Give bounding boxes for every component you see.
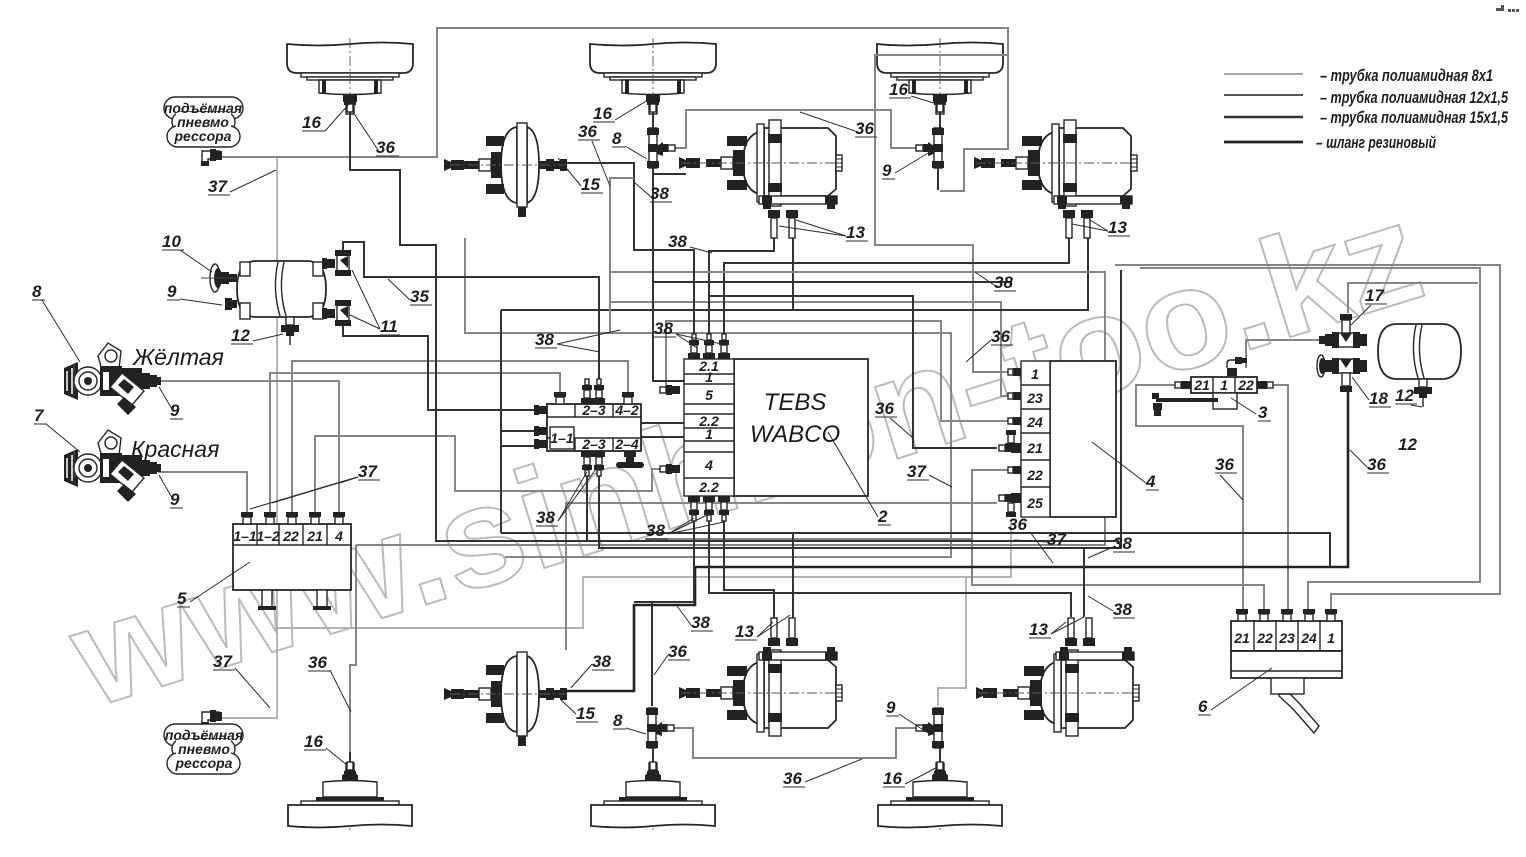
svg-text:36: 36 — [991, 327, 1010, 346]
svg-text:11: 11 — [380, 317, 398, 336]
drain fitting 12 — [281, 317, 299, 345]
wire mid chamber 13b long hose — [792, 533, 794, 621]
svg-text:8: 8 — [612, 129, 622, 148]
TEBS port strip — [684, 358, 734, 496]
wheel bottom-right — [878, 761, 1002, 833]
svg-text:Жёлтая: Жёлтая — [132, 344, 224, 370]
svg-text:4: 4 — [704, 457, 713, 473]
wheel bottom-left — [288, 761, 412, 833]
svg-text:16: 16 — [302, 113, 321, 132]
wire bottom-left bellows riser — [350, 545, 356, 763]
svg-text:13: 13 — [1108, 218, 1127, 237]
wire gray stub — [645, 538, 972, 540]
fitting 16 bottom-right wheel — [933, 762, 947, 780]
wire tee8 junction to cross link — [653, 173, 686, 175]
svg-text:1–1: 1–1 — [233, 528, 257, 544]
wire right chamber stud a to TEBS — [724, 236, 1069, 344]
wire chamber 15 gray branch — [610, 178, 634, 333]
svg-text:25: 25 — [1026, 495, 1043, 511]
svg-text:38: 38 — [994, 273, 1013, 292]
svg-text:13: 13 — [735, 622, 754, 641]
svg-text:9: 9 — [886, 698, 896, 717]
svg-text:38: 38 — [592, 652, 611, 671]
fitting 16 top-right wheel — [933, 94, 947, 112]
svg-text:17: 17 — [1365, 286, 1385, 305]
elbow 11 lower — [322, 300, 351, 326]
fitting 16 top-left wheel — [343, 94, 357, 112]
svg-text:9: 9 — [882, 161, 892, 180]
svg-text:12: 12 — [1395, 386, 1414, 405]
spring brake chamber bottom-right — [976, 618, 1140, 736]
wire top-mid chamber stud a — [709, 236, 774, 344]
wire TEBS stud to block4 21 — [709, 296, 997, 448]
svg-text:37: 37 — [213, 652, 233, 671]
svg-text:37: 37 — [907, 462, 927, 481]
centre manifold bottom studs — [581, 451, 593, 476]
svg-text:4: 4 — [1145, 472, 1156, 491]
wire TEBS 2.1 to manifold port — [501, 430, 536, 432]
tee 8 bottom — [646, 708, 674, 748]
wire valve3 right to test 23 — [1265, 385, 1288, 613]
wire valve3 to tee 17 — [1246, 340, 1332, 368]
spring brake chamber top-middle — [679, 120, 843, 238]
wire top-mid chamber stud b — [792, 236, 794, 310]
svg-text:8: 8 — [613, 711, 623, 730]
svg-text:38: 38 — [535, 330, 554, 349]
wheel top-middle — [590, 38, 716, 119]
valve3 top elbow — [1227, 357, 1247, 376]
svg-text:36: 36 — [1215, 455, 1234, 474]
tee 18 — [1317, 355, 1367, 392]
wire riser 22 — [292, 361, 628, 519]
svg-text:16: 16 — [593, 104, 612, 123]
wire bottom-right bellows stem — [939, 748, 941, 765]
manifold 5 legs — [262, 590, 272, 608]
wire chamber 15 top feed — [566, 163, 694, 344]
svg-text:36: 36 — [855, 119, 874, 138]
svg-text:37: 37 — [208, 177, 228, 196]
drain fitting 12 right — [1414, 379, 1432, 407]
svg-text:2–3: 2–3 — [581, 436, 606, 452]
wire bottom-mid bellows stem — [652, 748, 654, 765]
svg-text:24: 24 — [1026, 414, 1043, 430]
wire TEBS 2.2c to mid chamber 13a — [724, 512, 774, 621]
svg-text:21: 21 — [1193, 377, 1210, 393]
svg-text:21: 21 — [1026, 440, 1043, 456]
svg-text:1: 1 — [1327, 630, 1335, 646]
svg-text:TEBS: TEBS — [764, 389, 827, 416]
svg-text:38: 38 — [650, 184, 669, 203]
wire bellows gray loop mid — [356, 272, 1105, 545]
svg-text:1: 1 — [1220, 377, 1228, 393]
wire reservoir hose to bottom chamber — [566, 392, 1348, 691]
wire lift bellows branch to port 25 — [277, 520, 1011, 628]
svg-text:– трубка полиамидная 8х1: – трубка полиамидная 8х1 — [1320, 66, 1493, 85]
svg-text:рессора: рессора — [174, 128, 232, 144]
wire lift bellows loop left — [219, 157, 277, 718]
svg-text:38: 38 — [654, 319, 673, 338]
wire riser 1-2 — [270, 373, 560, 519]
TEBS bottom studs — [688, 496, 700, 521]
fitting 16 bottom-middle wheel — [646, 762, 660, 780]
TEBS left fittings — [660, 385, 680, 395]
tee 17 — [1319, 314, 1367, 348]
svg-text:38: 38 — [668, 232, 687, 251]
wire top-left bellows hose — [350, 104, 935, 541]
elbow 37 bottom — [201, 710, 222, 727]
wire valve3 left to test 21 — [1136, 385, 1243, 613]
wire bottom-left bellows stem — [349, 752, 351, 765]
svg-text:36: 36 — [376, 138, 395, 157]
svg-text:5: 5 — [177, 589, 187, 608]
wire manifold port c — [501, 445, 536, 447]
manifold 5 studs — [241, 512, 253, 524]
wheel bottom-middle — [591, 761, 715, 833]
wheel top-left — [287, 38, 413, 119]
valve3 side stubs — [1181, 381, 1191, 389]
fitting 9 on reservoir — [225, 298, 237, 310]
wire port 23 line — [610, 302, 1011, 396]
svg-text:9: 9 — [167, 282, 177, 301]
svg-text:23: 23 — [1026, 390, 1043, 406]
svg-text:2–4: 2–4 — [614, 436, 639, 452]
wire loop to test 1 — [1115, 265, 1500, 613]
svg-text:1–2: 1–2 — [256, 528, 280, 544]
svg-text:36: 36 — [1367, 455, 1386, 474]
drain unit studs — [1236, 609, 1248, 621]
spring brake chamber bottom-middle — [679, 618, 843, 736]
svg-text:6: 6 — [1198, 697, 1208, 716]
wire TEBS 2.2a down — [634, 512, 694, 602]
TEBS top studs — [688, 334, 700, 359]
svg-text:WABCO: WABCO — [750, 421, 840, 448]
wire bellows tee9 bottom riser — [938, 577, 966, 706]
elbow 11 upper — [322, 250, 351, 276]
svg-text:3: 3 — [1258, 403, 1268, 422]
svg-text:37: 37 — [358, 462, 378, 481]
wire top-mid bellows to tee8 — [652, 104, 654, 130]
svg-text:16: 16 — [889, 80, 908, 99]
fitting 10 flange — [201, 264, 239, 292]
svg-text:7: 7 — [34, 406, 45, 425]
wire port 24 line — [666, 321, 1011, 421]
brake chamber 15 top — [444, 123, 567, 217]
svg-text:16: 16 — [883, 769, 902, 788]
wire tee8 branch right — [652, 281, 1012, 283]
svg-text:1: 1 — [1031, 366, 1039, 382]
wire manifold stud to chamber feed — [599, 270, 1121, 548]
svg-text:12: 12 — [231, 326, 250, 345]
wire tee9 stub down — [937, 166, 939, 190]
svg-text:21: 21 — [1233, 630, 1250, 646]
centre manifold left ports — [534, 405, 547, 415]
svg-text:36: 36 — [875, 399, 894, 418]
tee 8 top — [647, 128, 675, 168]
wire port 22 long line — [465, 238, 951, 557]
svg-text:12: 12 — [1398, 435, 1417, 454]
brake chamber 15 bottom — [444, 652, 567, 746]
svg-text:38: 38 — [691, 613, 710, 632]
block4 port fittings — [1008, 368, 1021, 376]
svg-text:9: 9 — [170, 401, 180, 420]
svg-text:38: 38 — [646, 521, 665, 540]
wire manifold to TEBS bridge a — [641, 422, 684, 424]
wire supply tap to block4 port 1 — [875, 55, 1011, 372]
svg-text:– трубка полиамидная 15х1,5: – трубка полиамидная 15х1,5 — [1320, 108, 1508, 127]
svg-text:8: 8 — [32, 282, 42, 301]
wire port 25 left line — [566, 503, 997, 650]
svg-text:16: 16 — [304, 732, 323, 751]
wire manifold to TEBS bridge b — [641, 436, 684, 438]
wire tee17 stud to loop — [1348, 283, 1478, 313]
svg-text:13: 13 — [1029, 620, 1048, 639]
wire reservoir elbow to manifold port — [343, 324, 536, 410]
tee 9 top-right — [916, 128, 944, 168]
svg-text:38: 38 — [1113, 534, 1132, 553]
wire top-right bellows to tee9 — [939, 104, 941, 130]
svg-text:36: 36 — [783, 769, 802, 788]
drain valve under centre manifold — [616, 451, 644, 468]
wire bellows cross-connect bottom — [673, 728, 917, 758]
svg-text:35: 35 — [410, 287, 429, 306]
wire tee8 bottom riser — [651, 602, 653, 706]
svg-text:5: 5 — [705, 387, 713, 403]
corner icon — [1496, 5, 1519, 12]
svg-text:1: 1 — [705, 426, 713, 442]
svg-text:22: 22 — [1026, 467, 1043, 483]
svg-text:36: 36 — [668, 642, 687, 661]
wheel top-right — [877, 38, 1003, 119]
fitting 16 top-middle wheel — [646, 94, 660, 112]
wire red head to manifold — [158, 472, 247, 519]
svg-text:38: 38 — [536, 508, 555, 527]
svg-text:38: 38 — [1113, 600, 1132, 619]
svg-text:18: 18 — [1369, 389, 1388, 408]
wire riser 21 to TEBS port 4 — [315, 436, 663, 519]
tee 9 bottom-right — [916, 708, 944, 748]
wire port 22 line — [972, 470, 1264, 613]
svg-text:36: 36 — [578, 122, 597, 141]
svg-text:4: 4 — [334, 528, 343, 544]
svg-text:23: 23 — [1278, 630, 1295, 646]
valve3 lever — [1156, 398, 1218, 402]
elbow 37 top — [201, 149, 222, 166]
svg-text:22: 22 — [282, 528, 299, 544]
wire yellow head to manifold — [158, 381, 339, 519]
wire TEBS 2.2 to right chamber 13a — [709, 512, 1071, 617]
wire loop to test 24 — [1140, 268, 1480, 613]
svg-text:13: 13 — [846, 223, 865, 242]
svg-text:15: 15 — [576, 704, 595, 723]
wire manifold stud b down — [587, 455, 1119, 541]
svg-text:рессора: рессора — [175, 755, 233, 771]
svg-text:22: 22 — [1237, 377, 1254, 393]
wire branch to right chamber 13b — [1083, 548, 1085, 617]
svg-text:2: 2 — [877, 507, 888, 526]
wire tee8 down to TEBS port 1 — [653, 166, 684, 381]
svg-text:15: 15 — [581, 175, 600, 194]
svg-text:22: 22 — [1256, 630, 1273, 646]
svg-text:37: 37 — [1047, 530, 1067, 549]
svg-text:10: 10 — [162, 232, 181, 251]
wire right chamber stud b long line — [501, 236, 1088, 310]
svg-text:21: 21 — [306, 528, 323, 544]
svg-text:– шланг резиновый: – шланг резиновый — [1316, 133, 1436, 152]
wire 35 reservoir to manifold stud — [343, 242, 599, 388]
svg-text:36: 36 — [308, 653, 327, 672]
wire long hose y533 — [501, 533, 1330, 567]
spring brake chamber top-right — [974, 120, 1138, 238]
fitting 16 bottom-left wheel — [343, 762, 357, 780]
svg-text:– трубка полиамидная 12х1,5: – трубка полиамидная 12х1,5 — [1320, 88, 1508, 107]
svg-text:36: 36 — [1008, 515, 1027, 534]
centre manifold top studs — [554, 392, 566, 404]
svg-text:2.2: 2.2 — [698, 479, 719, 495]
svg-text:9: 9 — [170, 490, 180, 509]
svg-text:24: 24 — [1300, 630, 1317, 646]
wire bellows cross-connect top — [674, 110, 917, 148]
svg-text:2–3: 2–3 — [581, 402, 606, 418]
svg-text:1–1: 1–1 — [550, 430, 574, 446]
svg-text:1: 1 — [705, 369, 713, 385]
wire TEBS 2.1 branch down — [500, 310, 502, 533]
wire supply loop top — [221, 28, 1008, 191]
svg-text:Красная: Красная — [131, 436, 219, 462]
